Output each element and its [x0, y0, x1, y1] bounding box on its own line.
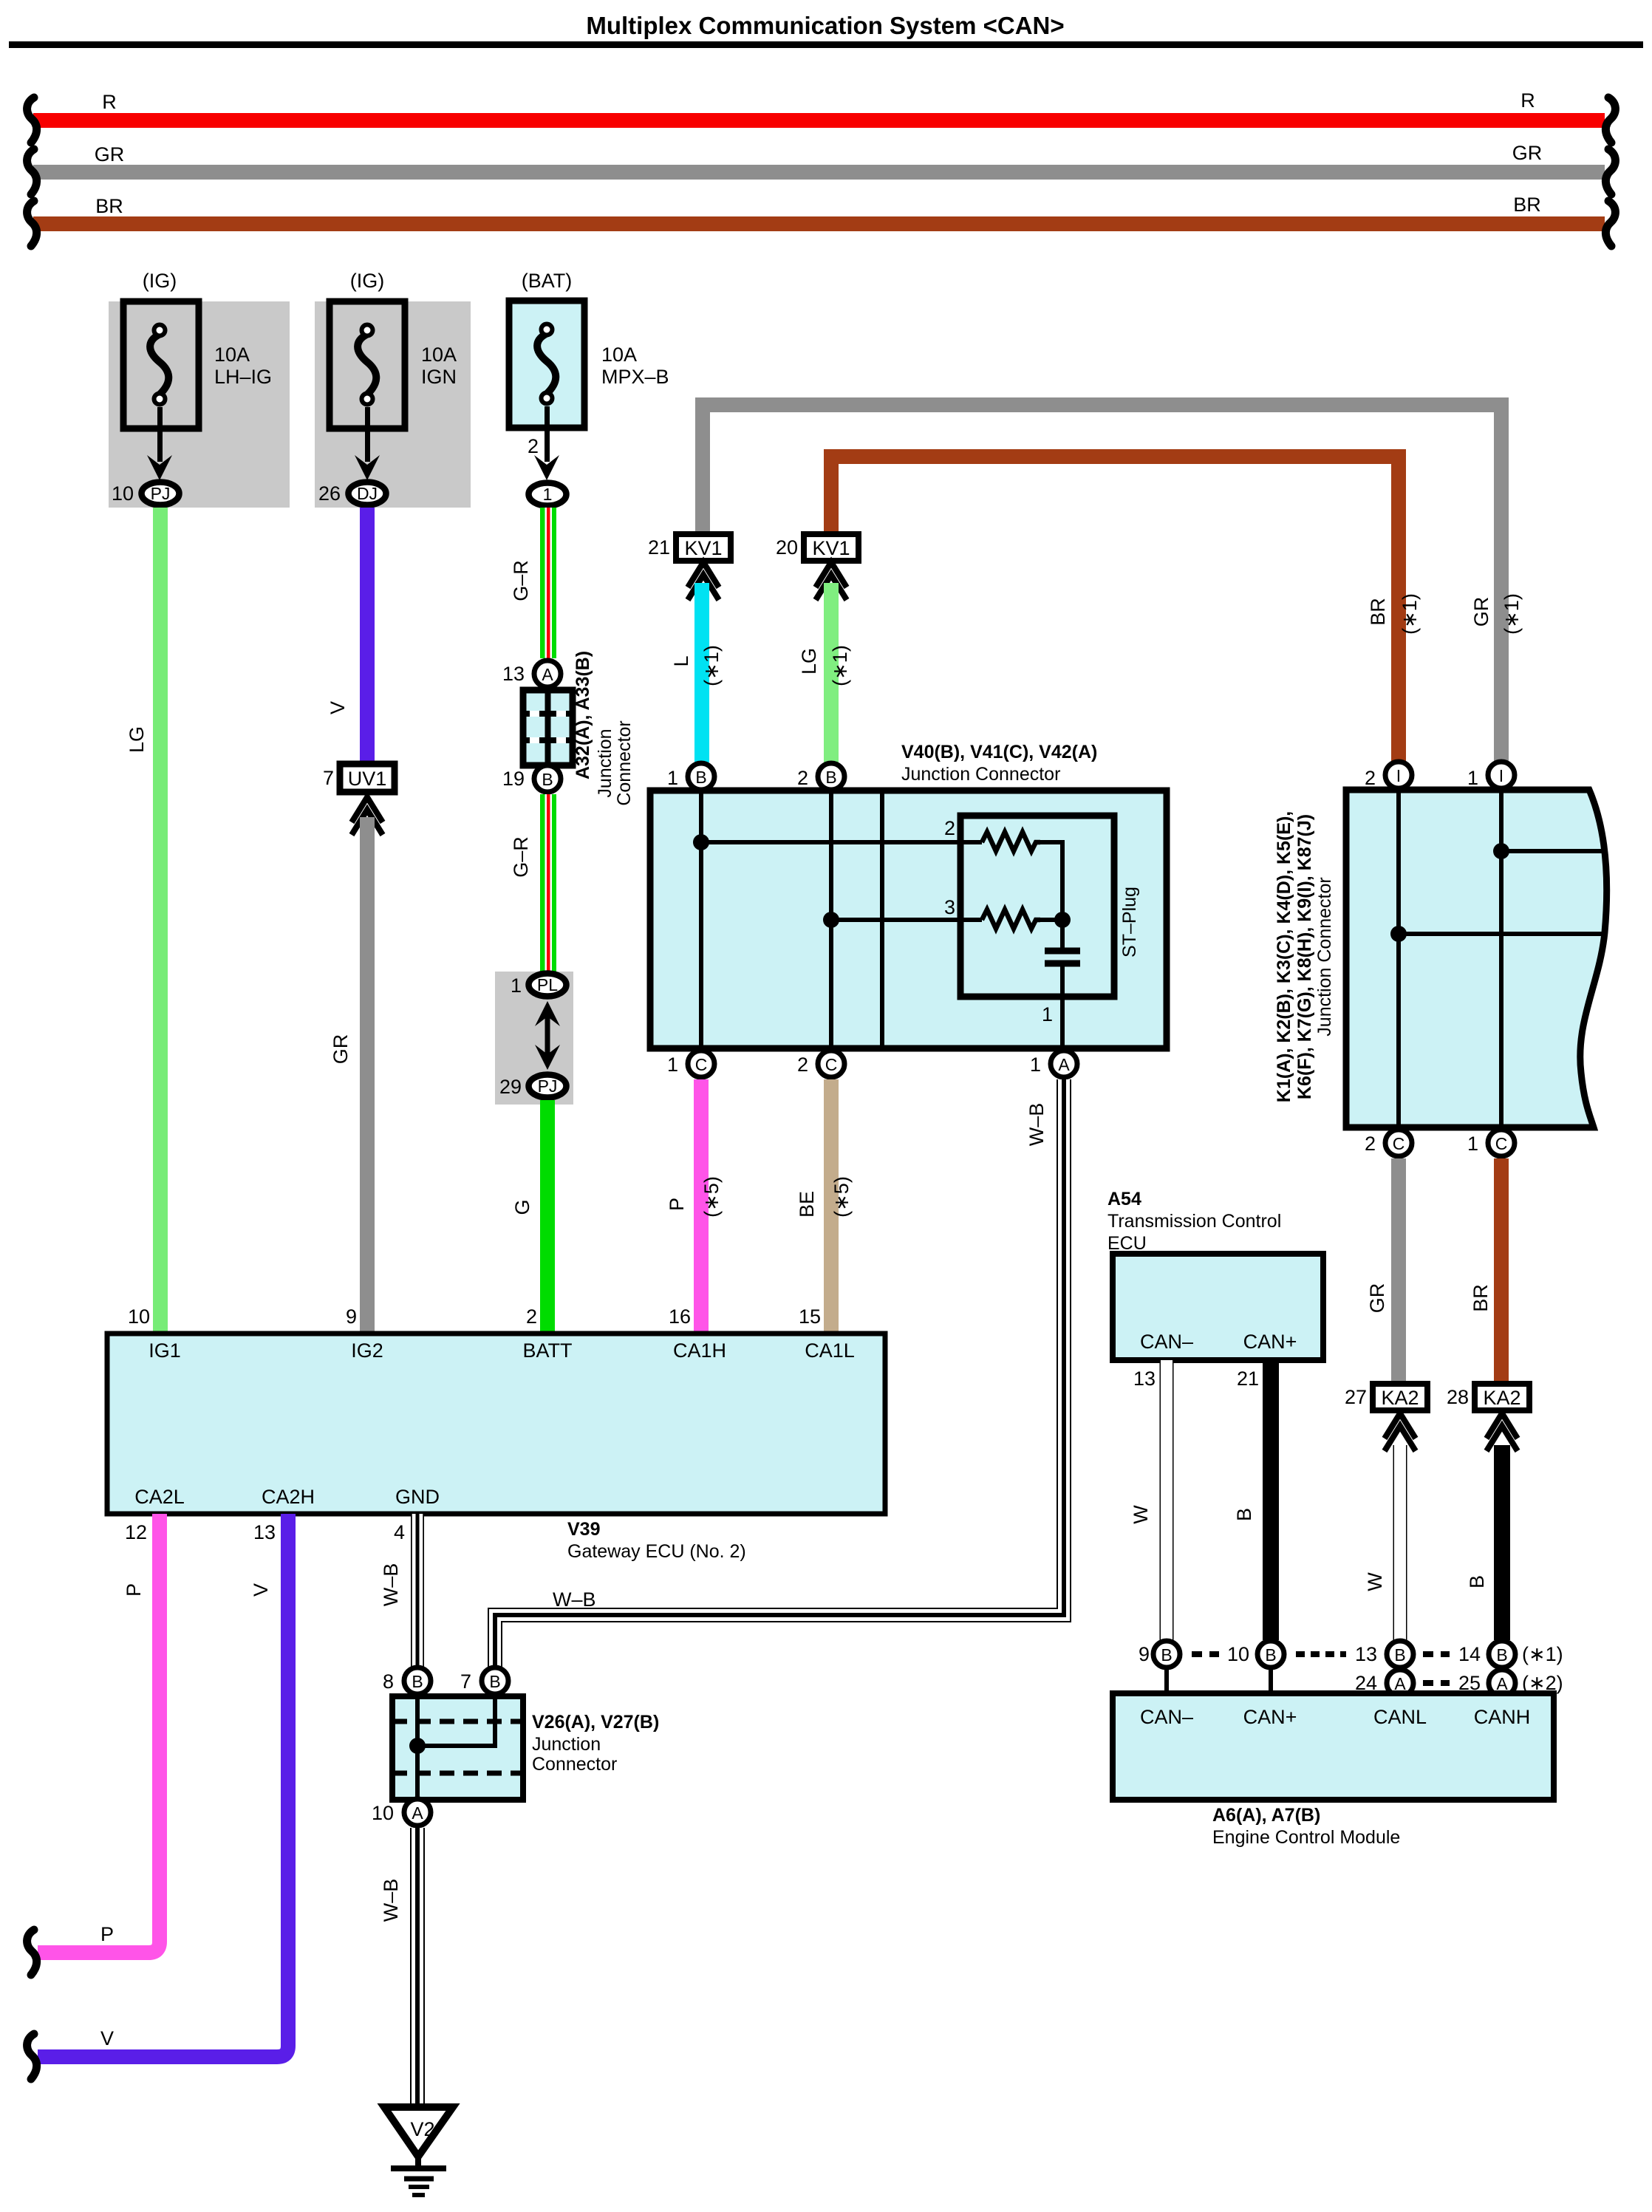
connector KA2 (27) [1373, 1384, 1427, 1410]
svg-text:(IG): (IG) [350, 270, 385, 292]
wire fuse MPX-B to connector 1 [545, 406, 550, 462]
branch chevron UV1 [352, 797, 383, 835]
wire row 3 : 2B line to resistor R2 [831, 918, 982, 922]
wire resistor R2 to cap node [1040, 918, 1062, 922]
svg-text:28: 28 [1447, 1386, 1469, 1408]
junction connector V26(A),V27(B) body [392, 1696, 523, 1800]
svg-text:GR: GR [330, 1034, 352, 1065]
ground stem [415, 2157, 421, 2168]
wire W-B : V40 1A down, left, to V26 7B [495, 1079, 1064, 1667]
svg-text:K1(A), K2(B), K3(C), K4(D), K5: K1(A), K2(B), K3(C), K4(D), K5(E), [1274, 811, 1294, 1102]
svg-text:B: B [825, 768, 836, 787]
svg-text:20: 20 [776, 536, 798, 559]
svg-text:1: 1 [667, 767, 678, 789]
svg-text:27: 27 [1345, 1386, 1367, 1408]
wire W : KA2 27 to ECM 13B [1393, 1445, 1407, 1640]
svg-text:10A: 10A [601, 344, 637, 366]
svg-text:UV1: UV1 [348, 768, 387, 790]
svg-text:BE: BE [796, 1191, 818, 1218]
break symbol P left [27, 1930, 37, 1975]
break symbol BR left [27, 201, 37, 246]
pin circle K 2I [1385, 762, 1412, 788]
svg-text:I: I [1396, 766, 1401, 785]
svg-text:CAN–: CAN– [1140, 1331, 1193, 1353]
svg-text:CANH: CANH [1474, 1706, 1531, 1728]
svg-text:2: 2 [797, 1054, 808, 1076]
svg-text:IGN: IGN [421, 366, 457, 388]
pin circle V40 2C [818, 1051, 844, 1077]
svg-text:8: 8 [383, 1670, 394, 1693]
wire L : KV1 21 to V40 1B [694, 583, 709, 762]
branch chevron KV1 20 [816, 562, 847, 600]
svg-text:2: 2 [528, 435, 539, 457]
svg-text:R: R [102, 91, 117, 113]
svg-text:Gateway ECU (No. 2): Gateway ECU (No. 2) [567, 1541, 746, 1562]
pin circle 13 A [534, 660, 561, 687]
svg-text:V: V [100, 2027, 114, 2049]
svg-text:B: B [1161, 1645, 1172, 1665]
svg-text:GR: GR [95, 143, 125, 165]
svg-text:7: 7 [323, 767, 334, 789]
pin circle ECM 10B [1257, 1641, 1284, 1667]
svg-text:Connector: Connector [614, 720, 635, 805]
wire G : connector PJ to V39 BATT [540, 1100, 555, 1334]
svg-text:(∗1): (∗1) [829, 645, 851, 686]
break symbol R right [1605, 98, 1615, 143]
svg-text:G–R: G–R [510, 560, 532, 601]
svg-text:GR: GR [1470, 597, 1492, 627]
svg-text:CAN+: CAN+ [1243, 1706, 1297, 1728]
connector block shading PL/PJ [495, 972, 573, 1105]
fuse 10A LH-IG body [123, 301, 199, 429]
wire P : V40 1C to V39 CA1H [694, 1079, 709, 1334]
svg-text:KV1: KV1 [684, 537, 722, 559]
svg-text:LG: LG [798, 648, 820, 675]
connector KV1 (20) [804, 534, 859, 561]
branch chevron KV1 21 [688, 562, 719, 600]
svg-text:1: 1 [1042, 1003, 1053, 1025]
break symbol GR right [1605, 149, 1615, 194]
svg-text:K6(F), K7(G), K8(H), K9(I), K8: K6(F), K7(G), K8(H), K9(I), K87(J) [1294, 814, 1315, 1099]
wire inside K box: 1I to 1C [1499, 790, 1503, 1127]
svg-text:L: L [670, 655, 692, 666]
connector DJ [349, 482, 386, 505]
break symbol BR right [1605, 201, 1615, 246]
pin circle V40 2B [818, 763, 844, 790]
svg-text:10: 10 [372, 1802, 394, 1824]
svg-text:BR: BR [1470, 1284, 1492, 1312]
svg-text:B: B [1394, 1645, 1405, 1665]
svg-text:10: 10 [112, 482, 134, 505]
svg-text:B: B [1265, 1645, 1276, 1665]
svg-text:B: B [542, 770, 553, 789]
svg-text:A: A [1058, 1055, 1070, 1074]
svg-text:W–B: W–B [553, 1588, 596, 1611]
svg-text:2: 2 [1365, 767, 1376, 789]
svg-text:PL: PL [537, 975, 558, 994]
pin circle V40 1B [688, 763, 714, 790]
wire resistor R1 to cap node [1040, 842, 1062, 920]
svg-text:10: 10 [128, 1305, 150, 1328]
junction dot V26 [409, 1738, 426, 1754]
svg-text:LG: LG [126, 726, 148, 753]
ST-Plug body [960, 816, 1114, 997]
fuse block shading (LH-IG) [109, 301, 290, 508]
svg-text:CAN+: CAN+ [1243, 1331, 1297, 1353]
svg-text:I: I [1499, 766, 1503, 785]
svg-text:W–B: W–B [380, 1879, 402, 1922]
svg-text:KV1: KV1 [812, 537, 850, 559]
svg-text:LH–IG: LH–IG [214, 366, 272, 388]
svg-text:1: 1 [667, 1054, 678, 1076]
wire W-B : V39 GND to V26 8B [411, 1514, 424, 1667]
title rule [9, 41, 1643, 48]
svg-text:7: 7 [460, 1670, 471, 1693]
branch chevron KA2 27 [1385, 1413, 1416, 1451]
fuse block shading (IGN) [315, 301, 471, 508]
svg-text:W–B: W–B [1025, 1103, 1048, 1147]
svg-text:Junction Connector: Junction Connector [1314, 877, 1335, 1036]
svg-text:19: 19 [502, 768, 525, 790]
engine control module body [1113, 1693, 1554, 1800]
fuse 10A MPX-B body [509, 301, 584, 428]
wire G-R : A32 pin 19B to connector PL [540, 794, 556, 972]
svg-text:13: 13 [253, 1521, 276, 1543]
break symbol R left [27, 98, 37, 143]
svg-text:13: 13 [1133, 1368, 1156, 1390]
svg-text:ECU: ECU [1107, 1233, 1147, 1254]
svg-text:CA1H: CA1H [673, 1339, 726, 1362]
pin circle V26 7B [482, 1667, 508, 1694]
svg-text:B: B [412, 1672, 423, 1691]
svg-text:BATT: BATT [523, 1339, 573, 1362]
svg-text:16: 16 [669, 1305, 691, 1328]
svg-text:4: 4 [394, 1521, 405, 1543]
svg-text:B: B [489, 1672, 500, 1691]
svg-text:PJ: PJ [538, 1076, 558, 1096]
svg-text:V39: V39 [567, 1519, 600, 1540]
gateway ECU V39 body [107, 1334, 885, 1514]
junction connector A32(A),A33(B) body [523, 690, 573, 765]
svg-text:CANL: CANL [1373, 1706, 1427, 1728]
pin circle V26 8B [404, 1667, 431, 1694]
junction dot on 2B line [823, 912, 839, 928]
fuse 10A LH-IG element [150, 325, 168, 405]
svg-text:BR: BR [95, 195, 123, 217]
svg-text:C: C [1393, 1134, 1405, 1153]
svg-text:BR: BR [1513, 194, 1541, 216]
pin circle ECM 24A [1387, 1670, 1413, 1696]
svg-text:21: 21 [648, 536, 670, 559]
svg-text:10A: 10A [214, 344, 250, 366]
dash link 24A-25A [1423, 1680, 1450, 1686]
wire inside V40: 1B to 1C [699, 791, 703, 1048]
K junction connector body [1346, 790, 1607, 1127]
svg-text:W: W [1364, 1572, 1386, 1591]
svg-text:BR: BR [1367, 598, 1389, 626]
svg-text:12: 12 [125, 1521, 147, 1543]
wire W : A54 CAN- to ECM 9B [1160, 1360, 1174, 1642]
svg-text:2: 2 [1365, 1133, 1376, 1155]
svg-text:(∗1): (∗1) [1399, 593, 1421, 635]
svg-text:B: B [1466, 1575, 1488, 1588]
svg-text:Junction Connector: Junction Connector [901, 764, 1060, 785]
fuse 10A IGN body [330, 301, 405, 429]
ground V2 symbol [384, 2107, 453, 2157]
svg-text:CA2L: CA2L [134, 1486, 185, 1508]
svg-text:29: 29 [499, 1076, 522, 1098]
svg-text:V: V [327, 701, 349, 714]
svg-text:G: G [511, 1199, 533, 1215]
wire from 2I dot to edge [1399, 932, 1603, 936]
svg-text:1: 1 [1467, 767, 1478, 789]
wire R bus (horizontal) [33, 113, 1605, 128]
junction dot on 2I line [1390, 926, 1407, 942]
capacitor C1 [1060, 920, 1065, 949]
connector UV1 [340, 764, 395, 792]
dash link 13B-14B [1423, 1651, 1450, 1657]
svg-text:15: 15 [799, 1305, 821, 1328]
svg-text:CAN–: CAN– [1140, 1706, 1193, 1728]
svg-text:R: R [1520, 89, 1535, 112]
svg-text:2: 2 [944, 817, 955, 839]
wire GR : UV1 to V39 IG2 [360, 817, 375, 1334]
svg-text:13: 13 [502, 663, 525, 685]
svg-text:G–R: G–R [510, 836, 532, 878]
svg-text:26: 26 [318, 482, 341, 505]
wire inside V40: 2B to 2C [829, 791, 833, 1048]
wire cap to V40 pin 1A [1060, 966, 1065, 1048]
wire P : V39 CA2L down-left off page [38, 1514, 160, 1953]
wire row 2 : 1B line to resistor R1 [701, 840, 982, 844]
wire fuse IGN to connector DJ [365, 407, 370, 462]
svg-text:9: 9 [346, 1305, 357, 1328]
break symbol GR left [27, 149, 37, 194]
wire V : V39 CA2H down-left off page [38, 1514, 288, 2057]
wire GR top branch : KV1 21 up and right to K-junction 1I [703, 405, 1501, 761]
svg-text:CA1L: CA1L [805, 1339, 855, 1362]
svg-text:(∗5): (∗5) [830, 1176, 853, 1218]
svg-text:MPX–B: MPX–B [601, 366, 669, 388]
svg-text:V26(A), V27(B): V26(A), V27(B) [532, 1712, 659, 1733]
svg-text:21: 21 [1237, 1368, 1259, 1390]
svg-text:B: B [695, 768, 706, 787]
svg-text:C: C [695, 1055, 708, 1074]
svg-text:KA2: KA2 [1483, 1387, 1520, 1409]
wire GR bus (horizontal) [33, 165, 1605, 180]
svg-text:P: P [123, 1583, 145, 1597]
fuse 10A MPX-B element [537, 324, 556, 404]
branch chevron KA2 28 [1487, 1413, 1518, 1451]
wire B : A54 CAN+ to ECM 10B [1263, 1360, 1279, 1640]
wire inside V40: bus pass-through [880, 791, 884, 1048]
pin circle ECM 14B [1489, 1641, 1515, 1667]
svg-text:13: 13 [1355, 1643, 1377, 1665]
dash link 9B-10B [1192, 1651, 1219, 1657]
wire inside V26: 7B to 8B line [417, 1696, 495, 1746]
wire BR bus (horizontal) [33, 216, 1605, 231]
pin circle ECM 25A [1489, 1670, 1515, 1696]
svg-text:PJ: PJ [151, 484, 171, 503]
svg-text:(BAT): (BAT) [522, 270, 573, 292]
svg-text:1: 1 [543, 485, 553, 504]
svg-text:ST–Plug: ST–Plug [1119, 887, 1140, 957]
svg-text:3: 3 [944, 896, 955, 918]
pin circle ECM 9B [1153, 1641, 1180, 1667]
wire stub ECM 9B to box [1164, 1667, 1169, 1695]
wire BE : V40 2C to V39 CA1L [824, 1079, 839, 1334]
svg-text:V: V [250, 1583, 272, 1597]
svg-text:C: C [1495, 1134, 1508, 1153]
svg-text:GR: GR [1512, 142, 1543, 164]
svg-text:Junction: Junction [595, 728, 615, 797]
svg-text:Multiplex Communication System: Multiplex Communication System <CAN> [586, 12, 1064, 39]
svg-text:P: P [666, 1198, 688, 1211]
svg-text:IG2: IG2 [351, 1339, 383, 1362]
svg-text:Connector: Connector [532, 1754, 617, 1775]
svg-text:KA2: KA2 [1381, 1387, 1419, 1409]
fuse 10A IGN element [358, 325, 376, 405]
svg-text:V40(B), V41(C), V42(A): V40(B), V41(C), V42(A) [901, 742, 1097, 762]
svg-text:GR: GR [1366, 1283, 1388, 1314]
svg-text:Junction: Junction [532, 1734, 601, 1755]
dash link 10B-13B [1296, 1651, 1346, 1657]
svg-text:B: B [1496, 1645, 1507, 1665]
wire BR : K 1C to KA2 28 [1494, 1158, 1509, 1384]
svg-text:A6(A), A7(B): A6(A), A7(B) [1212, 1805, 1320, 1826]
pin circle V40 1C [688, 1051, 714, 1077]
svg-text:V2: V2 [410, 2118, 434, 2140]
svg-text:(∗1): (∗1) [700, 645, 723, 686]
wire GR : K 2C to KA2 27 [1391, 1158, 1406, 1384]
connector KV1 (21) [676, 534, 731, 561]
svg-text:10: 10 [1227, 1643, 1249, 1665]
svg-text:14: 14 [1458, 1643, 1481, 1665]
wire from 1I dot to edge [1501, 849, 1605, 853]
pin circle K 2C [1385, 1130, 1412, 1156]
wire fuse LH-IG to connector PJ [157, 407, 163, 462]
connector PJ (lower) [529, 1075, 567, 1098]
svg-text:(∗5): (∗5) [700, 1176, 723, 1218]
junction dot on 1B line [693, 834, 709, 850]
pin circle 19 B [534, 765, 561, 792]
svg-text:W: W [1130, 1505, 1152, 1524]
svg-text:W–B: W–B [380, 1563, 402, 1607]
junction connector V40/V41/V42 body [650, 791, 1167, 1048]
pin circle K 1C [1488, 1130, 1515, 1156]
svg-text:1: 1 [511, 974, 522, 997]
wire G-R : connector 1 to junction A32 pin 13A [540, 508, 556, 658]
transmission control ECU A54 body [1113, 1254, 1323, 1360]
svg-text:C: C [825, 1055, 838, 1074]
svg-text:A32(A), A33(B): A32(A), A33(B) [573, 651, 593, 779]
svg-text:IG1: IG1 [149, 1339, 181, 1362]
connector PJ (fuse side) [142, 482, 180, 505]
resistor R2 (terminating) [982, 909, 1040, 929]
svg-text:10A: 10A [421, 344, 457, 366]
wire V : connector DJ to UV1 [360, 508, 375, 764]
wire BR top branch : KV1 20 up and right to K-junction 2I [831, 457, 1399, 761]
svg-text:2: 2 [797, 767, 808, 789]
dashed internal row (lower) [392, 1771, 523, 1776]
svg-text:A54: A54 [1107, 1189, 1141, 1209]
junction dot on 1I line [1493, 843, 1509, 859]
resistor R1 (terminating) [982, 832, 1040, 851]
svg-text:P: P [100, 1923, 114, 1945]
svg-text:GND: GND [395, 1486, 440, 1508]
wire LG : KV1 20 to V40 2B [824, 583, 839, 762]
wire PL to PJ (double arrow) [545, 1011, 550, 1061]
svg-text:1: 1 [1030, 1054, 1041, 1076]
pin circle V40 1A [1051, 1051, 1077, 1077]
wire B : KA2 28 to ECM 14B [1494, 1445, 1510, 1640]
wire stub ECM 10B to box [1269, 1667, 1273, 1695]
svg-text:9: 9 [1139, 1643, 1150, 1665]
junction dot cap node [1054, 912, 1071, 928]
svg-text:DJ: DJ [357, 484, 378, 503]
break symbol V left [27, 2034, 37, 2079]
pin circle ECM 13B [1387, 1641, 1413, 1667]
connector PL [529, 974, 567, 997]
svg-text:Transmission Control: Transmission Control [1107, 1211, 1281, 1232]
pin circle V26 10A [404, 1799, 431, 1826]
wire inside K box: 2I to 2C [1396, 790, 1401, 1127]
connector KA2 (28) [1475, 1384, 1529, 1410]
svg-text:(∗1): (∗1) [1522, 1643, 1563, 1665]
connector 1 (MPX-B) [529, 483, 567, 506]
ground hatch lines [391, 2165, 446, 2171]
svg-text:(∗1): (∗1) [1501, 593, 1523, 635]
pin circle K 1I [1488, 762, 1515, 788]
svg-text:Engine Control Module: Engine Control Module [1212, 1827, 1400, 1848]
dashed internal row (upper) [392, 1719, 523, 1724]
svg-text:2: 2 [526, 1305, 537, 1328]
wire inside V26: 8B to 10A [415, 1696, 420, 1800]
svg-text:1: 1 [1467, 1133, 1478, 1155]
svg-text:A: A [542, 665, 553, 684]
wire W-B : V26 10A to ground V2 [410, 1828, 425, 2106]
svg-text:B: B [1233, 1508, 1255, 1521]
wire LG : connector PJ to V39 IG1 [153, 508, 168, 1334]
svg-text:CA2H: CA2H [262, 1486, 315, 1508]
svg-text:(IG): (IG) [143, 270, 177, 292]
svg-text:A: A [412, 1803, 423, 1823]
